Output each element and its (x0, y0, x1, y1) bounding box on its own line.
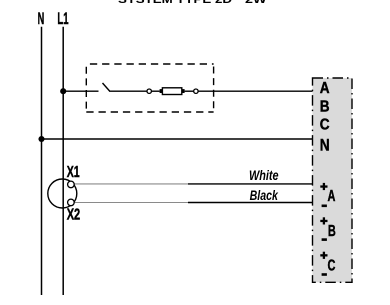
wire A to terminal block (198, 90, 312, 92)
svg-text:B: B (320, 98, 330, 115)
terminal +A- (320, 183, 335, 207)
svg-text:N: N (38, 9, 45, 28)
fuse F1 (160, 88, 185, 95)
junction on L1 (60, 88, 66, 94)
svg-text:2W: 2W (245, 0, 267, 6)
wire N (vertical) (41, 27, 43, 295)
wire Black (73, 202, 313, 204)
svg-text:C: C (320, 117, 330, 134)
svg-text:N: N (320, 136, 330, 154)
wire White (73, 183, 313, 185)
switch terminal circle (147, 89, 151, 93)
title (cut off at top edge) (118, 0, 267, 6)
wire fuse to terminal (185, 90, 194, 92)
svg-text:X1: X1 (67, 164, 80, 181)
wire L1 to switch (63, 90, 98, 92)
svg-text:A: A (328, 188, 336, 205)
svg-text:A: A (320, 80, 330, 97)
switch blade (103, 83, 111, 92)
dashed protection box (86, 64, 213, 112)
svg-text:B: B (328, 223, 336, 240)
svg-text:L1: L1 (57, 9, 68, 28)
wire switch to terminal (110, 90, 148, 92)
wire N to terminal block (42, 138, 313, 140)
current transformer CT (48, 179, 77, 208)
wire L1 (vertical) (62, 27, 64, 295)
terminal +B- (320, 217, 336, 241)
svg-text:C: C (328, 258, 336, 275)
CT terminal X1 (68, 181, 75, 188)
svg-text:White: White (249, 167, 279, 183)
svg-text:X2: X2 (67, 207, 81, 224)
CT terminal X2 (68, 199, 75, 206)
terminal +C- (320, 252, 335, 276)
terminal block enclosure (313, 78, 353, 282)
junction on N (38, 136, 44, 142)
wire terminal to fuse (151, 90, 159, 92)
svg-text:Black: Black (250, 187, 279, 203)
svg-text:SYSTEM TYPE 2D: SYSTEM TYPE 2D (118, 0, 232, 6)
fuse terminal circle (194, 89, 198, 93)
